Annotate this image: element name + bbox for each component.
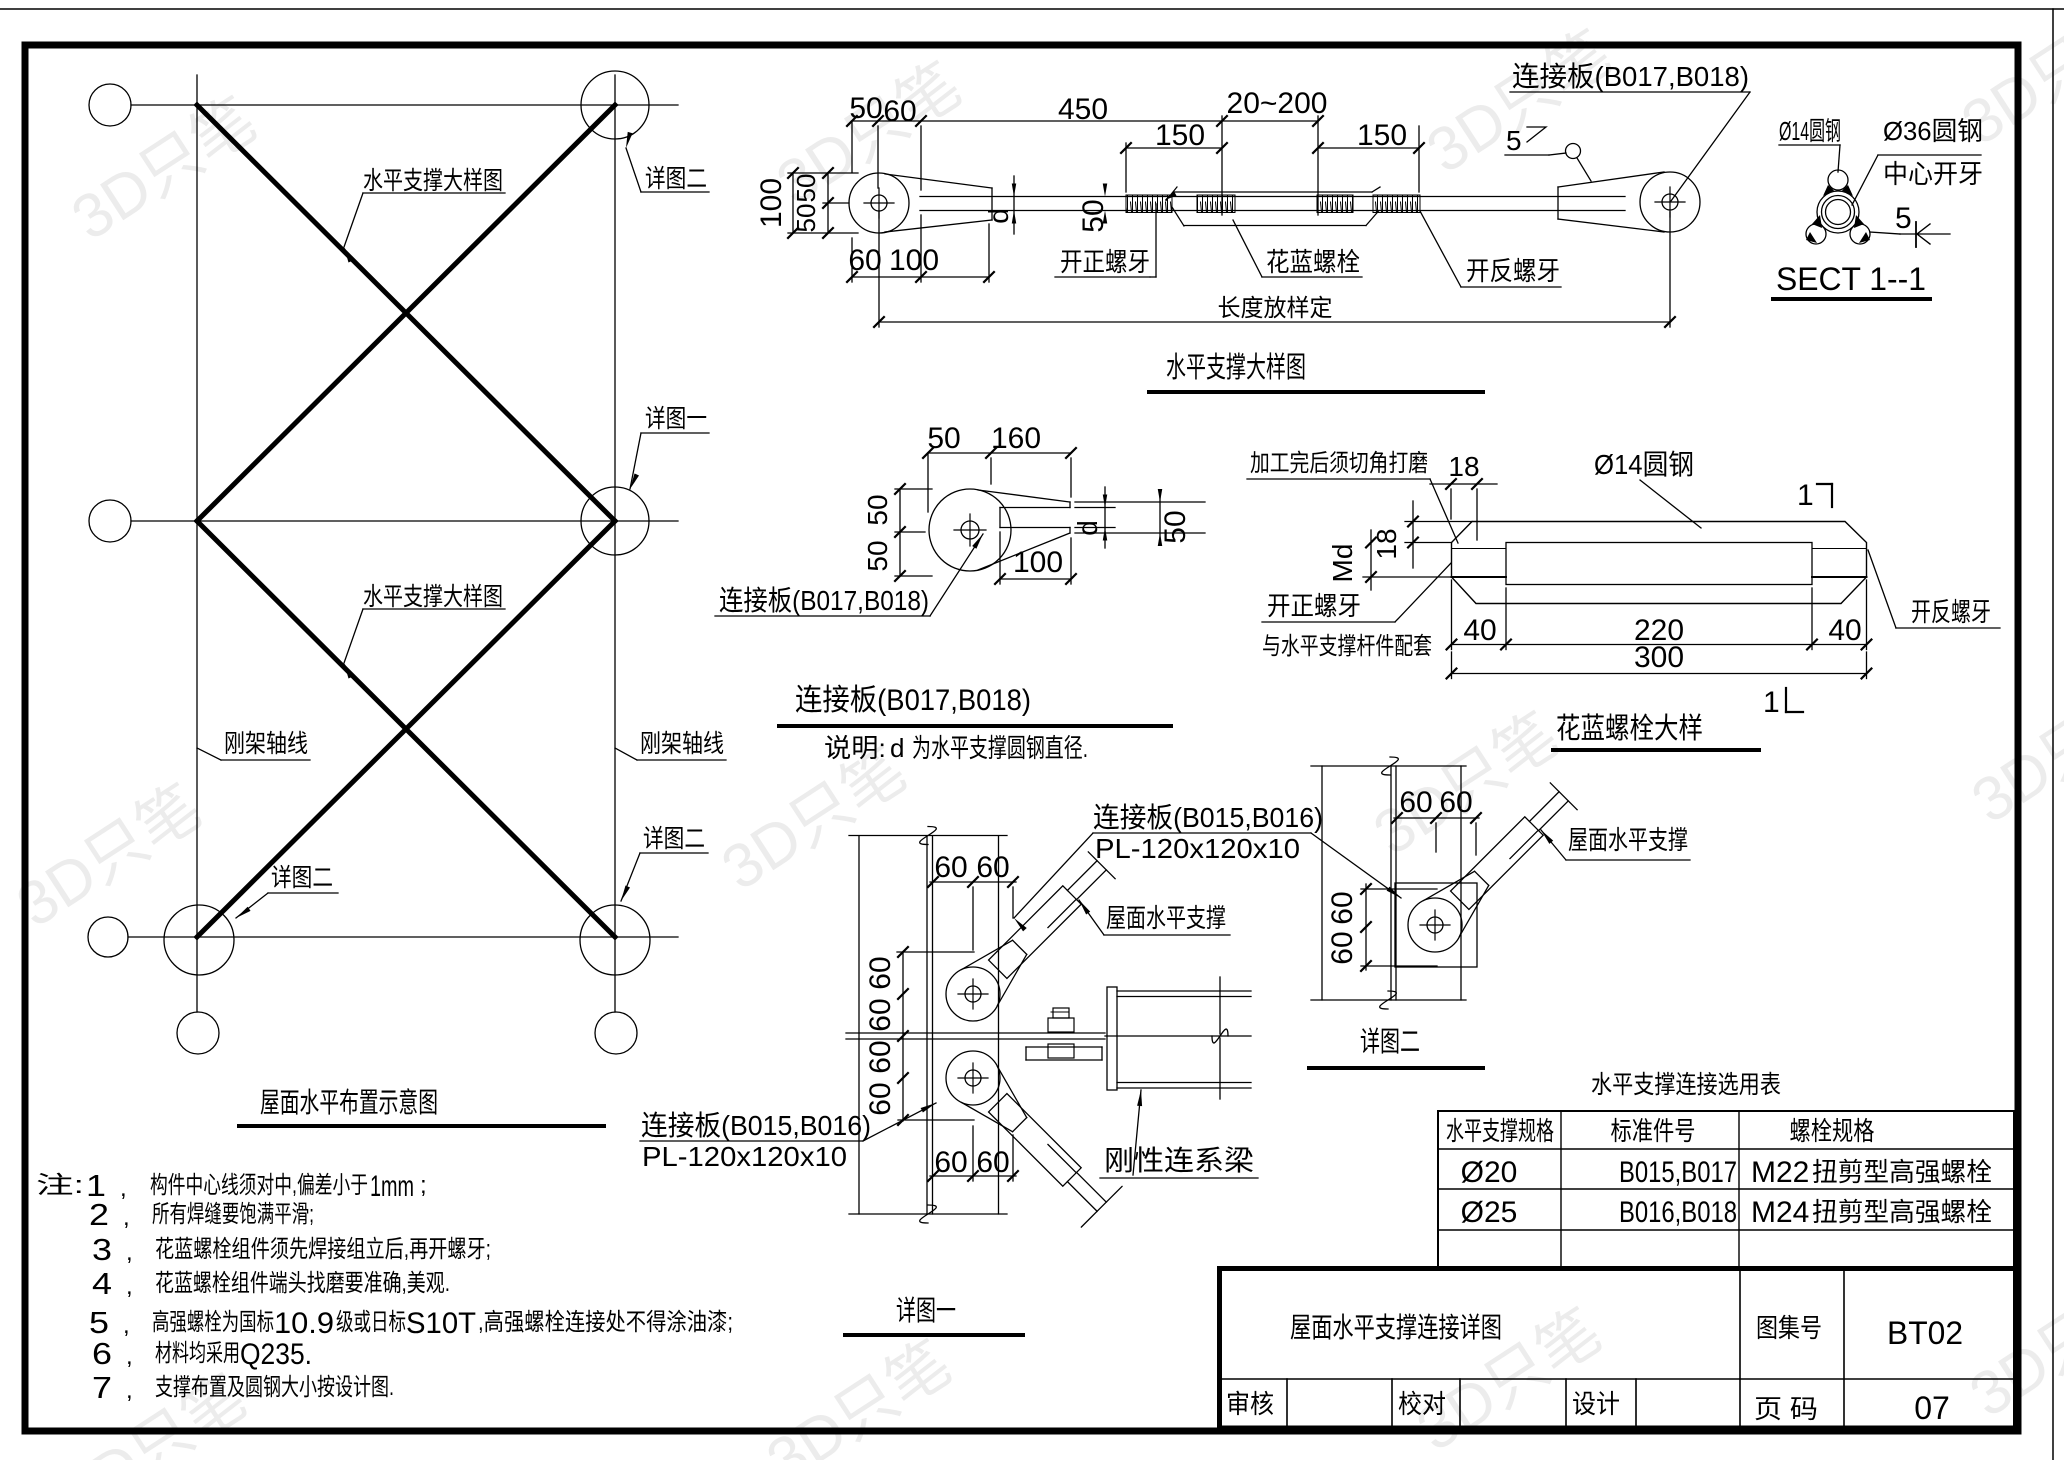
svg-text:为水平支撑圆钢直径.: 为水平支撑圆钢直径.	[912, 733, 1088, 763]
brace detail: overall dim changdu fangyangding	[879, 321, 1670, 323]
detail2: gusset B015/B016	[1408, 898, 1462, 952]
detail2: beam flange line left	[1321, 766, 1323, 1000]
svg-text:PL-120x120x10: PL-120x120x10	[642, 1141, 847, 1172]
svg-text:5: 5	[1506, 125, 1522, 156]
titleblock: verticals top row	[1739, 1268, 1741, 1379]
svg-text:加工完后须切角打磨: 加工完后须切角打磨	[1250, 450, 1428, 477]
sect: weld fillets	[1823, 185, 1834, 196]
svg-text:1: 1	[1797, 479, 1814, 512]
svg-text:60: 60	[848, 244, 881, 277]
plan: brace X1 down-right	[197, 105, 615, 521]
brace detail: right-hand thread band A	[1126, 195, 1172, 213]
svg-text:M22: M22	[1751, 1156, 1809, 1189]
sect: small rod bottom-right	[1850, 224, 1870, 244]
svg-text:设计: 设计	[1572, 1389, 1620, 1419]
svg-text:60: 60	[934, 1146, 967, 1179]
svg-text:Ø14圆钢: Ø14圆钢	[1594, 449, 1694, 480]
detail2: brace rod end plate	[1451, 817, 1544, 910]
plate detail: section title underline	[779, 724, 1171, 728]
svg-text:300: 300	[1634, 641, 1684, 674]
svg-text:4: 4	[92, 1266, 112, 1301]
turnbuckle: centre window opening	[1506, 543, 1812, 585]
detail2: beam bottom break	[1380, 991, 1397, 1009]
svg-text:50: 50	[791, 204, 821, 233]
svg-text:构件中心线须对中,偏差小于: 构件中心线须对中,偏差小于	[150, 1172, 368, 1199]
detail2: beam bottom boundary	[1311, 999, 1466, 1001]
detail2: beam web double line	[1390, 766, 1392, 1000]
svg-text:中心开牙: 中心开牙	[1883, 159, 1983, 189]
brace detail: left gusset pin hole	[871, 195, 887, 211]
plate detail: dim 100 below slot	[1000, 578, 1071, 580]
svg-text:刚架轴线: 刚架轴线	[640, 730, 724, 758]
svg-text:螺栓规格: 螺栓规格	[1790, 1116, 1875, 1146]
detail1: column flange line left	[858, 836, 860, 1214]
svg-text:材料均采用: 材料均采用	[155, 1340, 240, 1367]
brace detail: right-hand thread band B	[1197, 195, 1235, 213]
detail1: column top break	[920, 827, 937, 845]
sect: small rod bottom-left	[1806, 224, 1826, 244]
turnbuckle: left thread bore lines	[1452, 548, 1507, 550]
svg-text:,: ,	[120, 1175, 127, 1202]
svg-text:支撑布置及圆钢大小按设计图.: 支撑布置及圆钢大小按设计图.	[155, 1374, 394, 1401]
detail1: title underline	[845, 1333, 1023, 1337]
brace detail: extension lines top dims	[851, 121, 853, 172]
plan: detail circle at grid B1	[581, 71, 649, 139]
plan: grid line left vertical	[196, 75, 198, 1012]
detail1: lower gusset B015/B016	[946, 1051, 1000, 1105]
svg-text:60: 60	[1326, 891, 1359, 924]
svg-text:100: 100	[1013, 546, 1063, 579]
svg-text:刚性连系梁: 刚性连系梁	[1104, 1145, 1254, 1176]
detail1: tie beam bottom flange	[1117, 1082, 1251, 1084]
detail1: column web double line	[926, 836, 928, 1214]
brace detail: extension line threads	[1125, 143, 1127, 192]
svg-text:开正螺牙: 开正螺牙	[1267, 591, 1361, 621]
svg-text:屋面水平支撑: 屋面水平支撑	[1106, 903, 1226, 933]
brace detail: left-hand thread band D	[1373, 195, 1420, 213]
brace detail: dim line 50/60/450/20~200	[852, 120, 1318, 122]
svg-text:40: 40	[1463, 614, 1496, 647]
plate detail: dim d right	[1104, 487, 1106, 548]
detail1: column bottom break	[920, 1205, 937, 1223]
plan: brace X1 down-left	[197, 105, 615, 521]
plan: axis line row 3	[128, 936, 678, 938]
svg-text:连接板(B015,B016): 连接板(B015,B016)	[1093, 802, 1323, 833]
svg-text:18: 18	[1371, 528, 1402, 559]
svg-text:3: 3	[92, 1232, 112, 1267]
svg-text:SECT 1--1: SECT 1--1	[1776, 261, 1926, 297]
detail2: connection plate PL-120x120x10	[1395, 883, 1477, 967]
brace detail: dim 100 rotated left	[792, 173, 794, 233]
svg-text:60: 60	[1399, 786, 1432, 819]
detail1: tie beam cut line	[1219, 977, 1221, 1034]
svg-text:说明:: 说明:	[824, 733, 886, 763]
svg-text:连接板(B017,B018): 连接板(B017,B018)	[795, 684, 1031, 717]
svg-text:2: 2	[89, 1197, 109, 1232]
sect: main rod circle bore	[1826, 200, 1851, 225]
svg-text:5: 5	[89, 1305, 109, 1340]
svg-text:6: 6	[92, 1336, 112, 1371]
detail1: connection bolt stack	[1053, 1008, 1069, 1018]
outer thin trim line right	[2052, 9, 2054, 1460]
svg-text:水平支撑大样图: 水平支撑大样图	[363, 583, 503, 611]
svg-text:Ø14圆钢: Ø14圆钢	[1779, 116, 1841, 146]
svg-text:屋面水平支撑连接详图: 屋面水平支撑连接详图	[1290, 1312, 1502, 1343]
brace detail: dim line 150 right	[1318, 147, 1419, 149]
detail1: upper brace rod end plate	[989, 886, 1082, 979]
brace detail: right gusset plate B017/B018	[1640, 172, 1700, 232]
svg-text:PL-120x120x10: PL-120x120x10	[1095, 833, 1300, 864]
plan: column bubble below B3	[595, 1012, 637, 1054]
svg-text:50: 50	[927, 422, 960, 455]
detail1: splice plate horizontal edges	[846, 1032, 1105, 1034]
svg-text:50: 50	[849, 92, 882, 125]
svg-text:S10T: S10T	[406, 1307, 476, 1340]
svg-text:40: 40	[1828, 614, 1861, 647]
turnbuckle: dim 18 vertical	[1412, 501, 1414, 568]
svg-text:,: ,	[126, 1239, 133, 1266]
svg-text:花蓝螺栓组件须先焊接组立后,再开螺牙;: 花蓝螺栓组件须先焊接组立后,再开螺牙;	[155, 1236, 491, 1263]
brace detail: turnbuckle right hook	[1366, 211, 1379, 226]
svg-text:07: 07	[1914, 1390, 1950, 1426]
svg-text:1: 1	[1763, 686, 1780, 719]
svg-text:详图二: 详图二	[271, 864, 333, 892]
detail1: beam centre line	[1105, 1035, 1251, 1037]
svg-text:10.9: 10.9	[274, 1307, 334, 1340]
plan: detail circle at grid A3	[164, 905, 234, 975]
svg-text:校对: 校对	[1398, 1389, 1446, 1419]
svg-text:100: 100	[889, 244, 939, 277]
svg-text:3D只笔: 3D只笔	[1960, 668, 2064, 837]
detail1: upper gusset B015/B016	[946, 967, 1000, 1021]
sect: small rod top	[1828, 170, 1848, 190]
svg-text:Md: Md	[1327, 544, 1358, 583]
svg-text:60: 60	[1439, 786, 1472, 819]
svg-text:水平支撑规格: 水平支撑规格	[1446, 1116, 1554, 1146]
svg-text:d: d	[890, 733, 904, 763]
sect: main rod circle middle	[1822, 196, 1855, 229]
plan: axis bubble row2 left	[89, 500, 131, 542]
table: outer and row lines	[1438, 1110, 2014, 1112]
table: column lines	[1437, 1111, 1439, 1268]
svg-text:详图二: 详图二	[645, 165, 707, 193]
svg-text:B016,B018: B016,B018	[1619, 1196, 1737, 1229]
turnbuckle: body octagon outline	[1452, 522, 1867, 604]
turnbuckle: dim 300	[1452, 673, 1867, 675]
brace detail: right gusset pin hole	[1662, 194, 1678, 210]
plan: detail circle at grid B2	[581, 487, 649, 555]
svg-text:M24: M24	[1751, 1196, 1809, 1229]
svg-text:50: 50	[862, 540, 893, 571]
svg-text:,: ,	[126, 1273, 133, 1300]
detail1: dim 60 60 top	[930, 881, 1016, 883]
titleblock: outer border	[1220, 1269, 2016, 1429]
brace detail: left extension lines	[788, 172, 858, 174]
detail1: column flange line right	[998, 836, 1000, 1214]
svg-text:150: 150	[1155, 119, 1205, 152]
svg-text:Ø25: Ø25	[1461, 1196, 1518, 1229]
svg-text:扭剪型高强螺栓: 扭剪型高强螺栓	[1812, 1157, 1992, 1187]
svg-text:连接板(B017,B018): 连接板(B017,B018)	[1512, 61, 1749, 92]
brace detail: turnbuckle body bottom edge	[1184, 225, 1366, 227]
svg-text:18: 18	[1448, 451, 1479, 482]
plate detail: pin hole	[961, 521, 979, 539]
svg-text:花蓝螺栓大样: 花蓝螺栓大样	[1556, 712, 1703, 745]
detail1: left dim extension lines	[897, 951, 974, 953]
svg-text:50: 50	[1159, 510, 1192, 543]
svg-text:水平支撑大样图: 水平支撑大样图	[363, 167, 503, 195]
svg-text:详图一: 详图一	[896, 1295, 956, 1326]
svg-text:20~200: 20~200	[1227, 87, 1328, 120]
svg-text:160: 160	[991, 422, 1041, 455]
titleblock: verticals bottom row	[1286, 1379, 1288, 1428]
svg-text:高强螺栓为国标: 高强螺栓为国标	[152, 1309, 274, 1336]
svg-text:3D只笔: 3D只笔	[710, 735, 918, 904]
svg-text:3D只笔: 3D只笔	[1362, 700, 1570, 869]
plan: brace X2 down-left	[197, 521, 615, 937]
svg-text:60: 60	[1326, 931, 1359, 964]
plate detail: dim 50/50 left	[899, 489, 901, 576]
svg-text:;: ;	[420, 1172, 427, 1199]
svg-text:详图一: 详图一	[645, 405, 707, 433]
svg-text:屋面水平布置示意图: 屋面水平布置示意图	[260, 1087, 438, 1118]
brace detail: rod diameter dim d	[1013, 176, 1015, 234]
svg-text:60: 60	[864, 956, 897, 989]
svg-text:刚架轴线: 刚架轴线	[224, 730, 308, 758]
svg-text:花蓝螺栓组件端头找磨要准确,美观.: 花蓝螺栓组件端头找磨要准确,美观.	[155, 1270, 450, 1297]
svg-text:,高强螺栓连接处不得涂油漆;: ,高强螺栓连接处不得涂油漆;	[478, 1309, 733, 1336]
svg-text:60: 60	[864, 1040, 897, 1073]
svg-text:Ø36圆钢: Ø36圆钢	[1883, 116, 1983, 146]
plan: axis bubble row1 left	[89, 84, 131, 126]
svg-text:图集号: 图集号	[1756, 1313, 1822, 1343]
outer thin trim line top	[0, 8, 2064, 10]
svg-text:60: 60	[883, 95, 916, 128]
sect: main rod circle outer	[1817, 191, 1859, 233]
svg-text:450: 450	[1058, 93, 1108, 126]
turnbuckle: dim Md vertical	[1370, 530, 1372, 590]
detail1: lower brace rod end plate	[989, 1094, 1082, 1187]
svg-text:7: 7	[92, 1370, 112, 1405]
detail2: beam top boundary	[1311, 765, 1466, 767]
svg-text:屋面水平支撑: 屋面水平支撑	[1568, 825, 1688, 855]
svg-text:d: d	[983, 208, 1014, 224]
plan: title underline	[239, 1124, 604, 1128]
brace detail: dim line 60/100 below gusset	[852, 276, 989, 278]
turnbuckle: title underline	[1553, 748, 1759, 752]
brace detail: turnbuckle left hook	[1166, 192, 1174, 200]
detail1: lower packing plate	[1026, 1046, 1102, 1048]
detail1: tie beam top flange	[1117, 990, 1251, 992]
plan: brace X2 down-right	[197, 521, 615, 937]
plan: axis bubble row3 left	[88, 917, 128, 957]
svg-text:标准件号: 标准件号	[1611, 1116, 1696, 1146]
detail2: beam top break	[1382, 757, 1399, 775]
svg-text:详图二: 详图二	[643, 825, 705, 853]
plate detail: dim 50/160 top	[928, 452, 1071, 454]
detail2: left dim extension lines	[1361, 888, 1437, 890]
svg-text:50: 50	[791, 174, 821, 203]
plan: axis line row 2	[131, 520, 678, 522]
brace detail: title underline	[1149, 390, 1483, 394]
svg-text:100: 100	[755, 178, 788, 228]
brace detail: tie rod top edge	[920, 196, 1625, 198]
brace detail: turnbuckle body top edge	[1174, 191, 1372, 193]
svg-text:Q235.: Q235.	[240, 1338, 312, 1371]
detail1: column bottom boundary	[849, 1213, 1007, 1215]
detail2: title underline	[1309, 1066, 1483, 1070]
svg-text:连接板(B017,B018): 连接板(B017,B018)	[719, 585, 929, 616]
titleblock: row divider	[1219, 1378, 2016, 1380]
svg-text:开反螺牙: 开反螺牙	[1911, 597, 1991, 627]
turnbuckle: right thread bore lines	[1812, 548, 1867, 550]
svg-text:扭剪型高强螺栓: 扭剪型高强螺栓	[1812, 1197, 1992, 1227]
brace detail: left-hand thread band C	[1317, 195, 1353, 213]
svg-text:长度放样定: 长度放样定	[1218, 295, 1333, 322]
plan: detail circle at grid B3	[580, 905, 650, 975]
svg-text:,: ,	[126, 1377, 133, 1404]
detail2: dim 60 60 top	[1394, 817, 1479, 819]
detail1: dim 60x4 left	[902, 952, 904, 1121]
brace detail: tie rod bottom edge	[920, 210, 1625, 212]
svg-text:B015,B017: B015,B017	[1619, 1156, 1737, 1189]
turnbuckle: dim 18 horizontal	[1430, 483, 1497, 485]
svg-text:,: ,	[123, 1312, 130, 1339]
svg-text:与水平支撑杆件配套: 与水平支撑杆件配套	[1262, 633, 1432, 660]
svg-text:开反螺牙: 开反螺牙	[1466, 256, 1560, 286]
svg-text:50: 50	[862, 494, 893, 525]
plan: axis line row 1	[131, 104, 678, 106]
svg-text:花蓝螺栓: 花蓝螺栓	[1266, 247, 1360, 277]
svg-text:详图二: 详图二	[1360, 1026, 1420, 1057]
svg-text:5: 5	[1895, 202, 1912, 235]
plate detail: gusset body B017/B018	[929, 489, 1011, 571]
svg-text:,: ,	[126, 1343, 133, 1370]
svg-text:3D只笔: 3D只笔	[755, 1328, 963, 1460]
svg-text:1mm: 1mm	[370, 1170, 414, 1203]
svg-text:60: 60	[864, 998, 897, 1031]
svg-text:150: 150	[1357, 119, 1407, 152]
svg-text:注:: 注:	[36, 1172, 84, 1199]
turnbuckle: dim 40/220/40	[1452, 644, 1867, 646]
brace detail: dim 50 50 rotated left	[827, 173, 829, 233]
detail2: beam flange line right	[1460, 766, 1462, 1000]
svg-text:Ø20: Ø20	[1461, 1156, 1518, 1189]
svg-text:水平支撑大样图: 水平支撑大样图	[1166, 351, 1306, 384]
svg-text:BT02: BT02	[1887, 1315, 1963, 1351]
plan: column bubble below A3	[177, 1012, 219, 1054]
svg-text:级或日标: 级或日标	[336, 1309, 406, 1336]
svg-text:所有焊缝要饱满平滑;: 所有焊缝要饱满平滑;	[152, 1201, 314, 1228]
svg-text:连接板(B015,B016): 连接板(B015,B016)	[641, 1110, 871, 1141]
detail2: dim 60 60 left	[1365, 884, 1367, 970]
brace detail: rod break between threads	[1166, 187, 1177, 201]
svg-text:审核: 审核	[1226, 1389, 1274, 1419]
svg-text:60: 60	[976, 851, 1009, 884]
svg-text:3D只笔: 3D只笔	[1958, 1262, 2064, 1431]
svg-text:水平支撑连接选用表: 水平支撑连接选用表	[1591, 1071, 1781, 1099]
plate detail: rod slot	[1000, 507, 1070, 509]
plan: grid line right vertical	[614, 75, 616, 1012]
svg-text:3D只笔: 3D只笔	[5, 772, 213, 941]
detail1: dim 60 60 bottom	[930, 1175, 1016, 1177]
detail1: column top boundary	[849, 835, 1007, 837]
svg-text:,: ,	[123, 1204, 130, 1231]
svg-text:页 码: 页 码	[1754, 1394, 1818, 1424]
svg-text:3D只笔: 3D只笔	[60, 85, 268, 254]
svg-text:60: 60	[976, 1146, 1009, 1179]
brace detail: left gusset plate B017/B018	[849, 173, 909, 233]
plate detail: dim 50 far right	[1159, 494, 1161, 540]
sect: title underline	[1773, 297, 1930, 301]
detail1: tie beam end plate	[1107, 987, 1117, 1090]
brace detail: dim line 150 left	[1126, 147, 1222, 149]
svg-text:60: 60	[934, 851, 967, 884]
svg-text:开正螺牙: 开正螺牙	[1060, 247, 1150, 277]
